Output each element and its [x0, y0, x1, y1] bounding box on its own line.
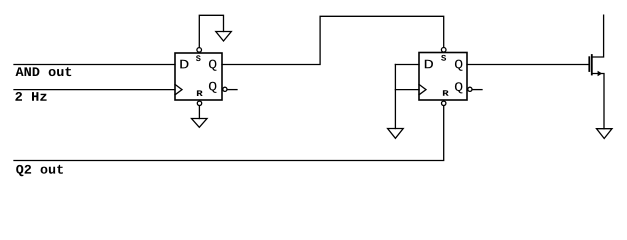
- U2 pin label S: [441, 55, 446, 61]
- node label 2 Hz: [15, 92, 46, 101]
- ground (below U2 D/clk net): [388, 129, 404, 139]
- wire U2 clock to grounded node: [395, 89, 419, 91]
- U1 clock chevron: [175, 84, 182, 94]
- ground (below U1 R): [192, 119, 208, 128]
- U2 S bubble: [441, 48, 446, 53]
- U2 R bubble: [442, 101, 446, 105]
- transistor Q1 source wire: [592, 74, 604, 129]
- U1 pin label R: [197, 90, 203, 96]
- wire 2 Hz (net to U1 clock): [14, 89, 175, 91]
- wire AND out (net to U1 pin D): [14, 64, 175, 66]
- transistor Q1 drain wire: [592, 15, 604, 57]
- U1 pin label S: [196, 55, 201, 61]
- U1 Qbar bubble: [223, 87, 227, 91]
- U2 pin label D: [425, 60, 433, 69]
- ground (below Q1 source): [597, 129, 613, 139]
- flip-flop U2 box: [419, 53, 467, 101]
- wire U2 Q to Q1 gate: [467, 64, 589, 66]
- transistor Q1 gate bar: [588, 57, 590, 71]
- ground (top, on U1 S net): [216, 32, 232, 42]
- U2 pin label Qbar: [455, 82, 463, 93]
- U2 pin label R: [443, 90, 449, 96]
- flip-flop U1 box: [175, 53, 222, 100]
- transistor Q1 source arrow: [598, 71, 603, 76]
- U1 pin label Q: [209, 60, 217, 71]
- wire U1 Qbar stub: [227, 89, 237, 91]
- U2 clock chevron: [419, 84, 426, 94]
- U1 pin label D: [180, 60, 188, 69]
- wire grounded node vertical: [394, 65, 396, 129]
- wire U1 S to ground (up-over): [199, 15, 223, 48]
- node label AND out: [16, 67, 72, 76]
- wire U2 Qbar stub: [472, 89, 482, 91]
- wire U1 Q to U2 S (up-over): [222, 16, 444, 64]
- transistor Q1 channel bar: [591, 55, 593, 75]
- node label Q2 out: [16, 165, 63, 176]
- U1 pin label Qbar: [209, 82, 217, 93]
- U1 S bubble: [197, 48, 202, 53]
- U2 pin label Q: [455, 60, 463, 71]
- wire U1 R stub: [198, 106, 200, 119]
- U2 Qbar bubble: [468, 87, 472, 91]
- wire U2 R to Q2 out: [14, 106, 444, 161]
- U1 R bubble: [197, 101, 201, 105]
- wire U2 D to grounded node: [395, 64, 419, 66]
